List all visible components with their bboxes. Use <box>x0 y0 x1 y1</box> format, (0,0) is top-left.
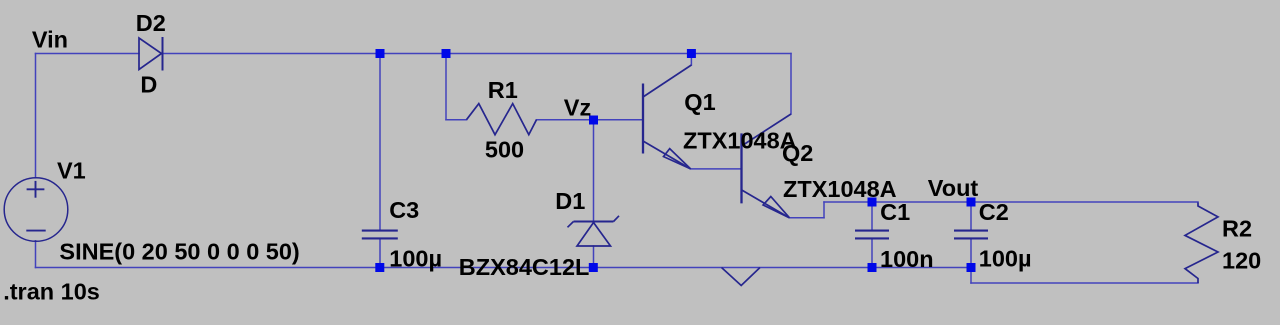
svg-text:R1: R1 <box>488 77 518 103</box>
svg-text:D2: D2 <box>136 10 166 36</box>
zener diode D1 <box>568 216 620 246</box>
wire C1 bottom to ground bus <box>871 239 873 268</box>
wire top bus main segment (D2 cathode to Q2 collector corner) <box>163 53 792 55</box>
junction C3 bottom <box>375 263 384 272</box>
transistor Q2 <box>742 114 792 218</box>
junction Q1 collector <box>687 49 696 58</box>
wire output rail Vout <box>824 201 1198 203</box>
wire C2 top drop from output rail <box>970 202 972 230</box>
svg-text:120: 120 <box>1222 248 1261 274</box>
svg-text:Q2: Q2 <box>782 140 813 166</box>
svg-text:D: D <box>140 71 157 97</box>
junction C2 top <box>967 198 976 207</box>
wire bottom ground bus <box>36 267 972 269</box>
ground <box>722 268 761 286</box>
svg-text:Vz: Vz <box>564 94 591 120</box>
svg-text:Q1: Q1 <box>684 89 715 115</box>
junction C1 bottom <box>868 263 877 272</box>
svg-text:C3: C3 <box>389 197 419 223</box>
wire Q1 collector stub to top bus <box>690 54 692 66</box>
wire C2 bottom extension down <box>970 268 972 284</box>
svg-text:ZTX1048A: ZTX1048A <box>683 127 797 153</box>
junction C2 bottom <box>967 263 976 272</box>
svg-text:R2: R2 <box>1222 216 1252 242</box>
wire R1 right lead to Q1 base through node Vz <box>537 119 644 121</box>
capacitor C1 <box>855 231 889 239</box>
svg-text:.tran 10s: .tran 10s <box>3 279 100 305</box>
wire R1 left lead <box>446 119 467 121</box>
svg-text:100µ: 100µ <box>979 246 1032 272</box>
junction C3 top <box>376 49 385 58</box>
svg-text:100n: 100n <box>880 246 934 272</box>
svg-text:BZX84C12L: BZX84C12L <box>459 254 590 280</box>
junction node Vz <box>589 116 598 125</box>
wire top bus left segment (Vin corner to D2 anode) <box>36 53 140 55</box>
resistor R2 <box>1185 203 1218 284</box>
svg-text:SINE(0 20 50 0 0 0 50): SINE(0 20 50 0 0 0 50) <box>59 239 299 265</box>
wire C1 top drop from output rail <box>871 202 873 230</box>
svg-text:100µ: 100µ <box>389 246 442 272</box>
svg-text:C1: C1 <box>880 199 910 225</box>
wire C3 top drop from top bus <box>379 54 381 231</box>
wire R1 drop from top bus <box>445 54 447 120</box>
resistor R1 <box>467 104 537 135</box>
wire V1 bottom to ground bus <box>35 241 37 268</box>
wire C2 bottom to ground bus <box>970 239 972 268</box>
wire jog up to output rail <box>823 202 825 218</box>
junction R1 top <box>442 49 451 58</box>
svg-text:V1: V1 <box>57 158 86 184</box>
wire Q2 collector drop from top bus <box>790 54 792 115</box>
wire left vertical from Vin corner to V1 top <box>35 54 37 178</box>
wire C3 bottom to ground bus <box>379 239 381 268</box>
voltage source V1 <box>4 178 68 242</box>
wire D1 anode to ground bus <box>593 246 595 268</box>
svg-text:Vout: Vout <box>928 175 979 201</box>
svg-text:C2: C2 <box>979 199 1009 225</box>
svg-text:500: 500 <box>485 137 524 163</box>
wire bottom return to R2 <box>971 282 1198 284</box>
diode D2 <box>139 37 163 71</box>
transistor Q1 <box>643 65 691 169</box>
svg-text:D1: D1 <box>555 188 585 214</box>
capacitor C2 <box>954 231 988 239</box>
svg-text:Vin: Vin <box>32 27 68 53</box>
junction C1 top <box>868 198 877 207</box>
wire Q1 emitter to Q2 base <box>691 168 742 170</box>
capacitor C3 <box>362 231 398 239</box>
wire node Vz down to D1 cathode <box>593 120 595 222</box>
junction D1 bottom <box>589 263 598 272</box>
wire Q2 emitter run <box>790 217 824 219</box>
